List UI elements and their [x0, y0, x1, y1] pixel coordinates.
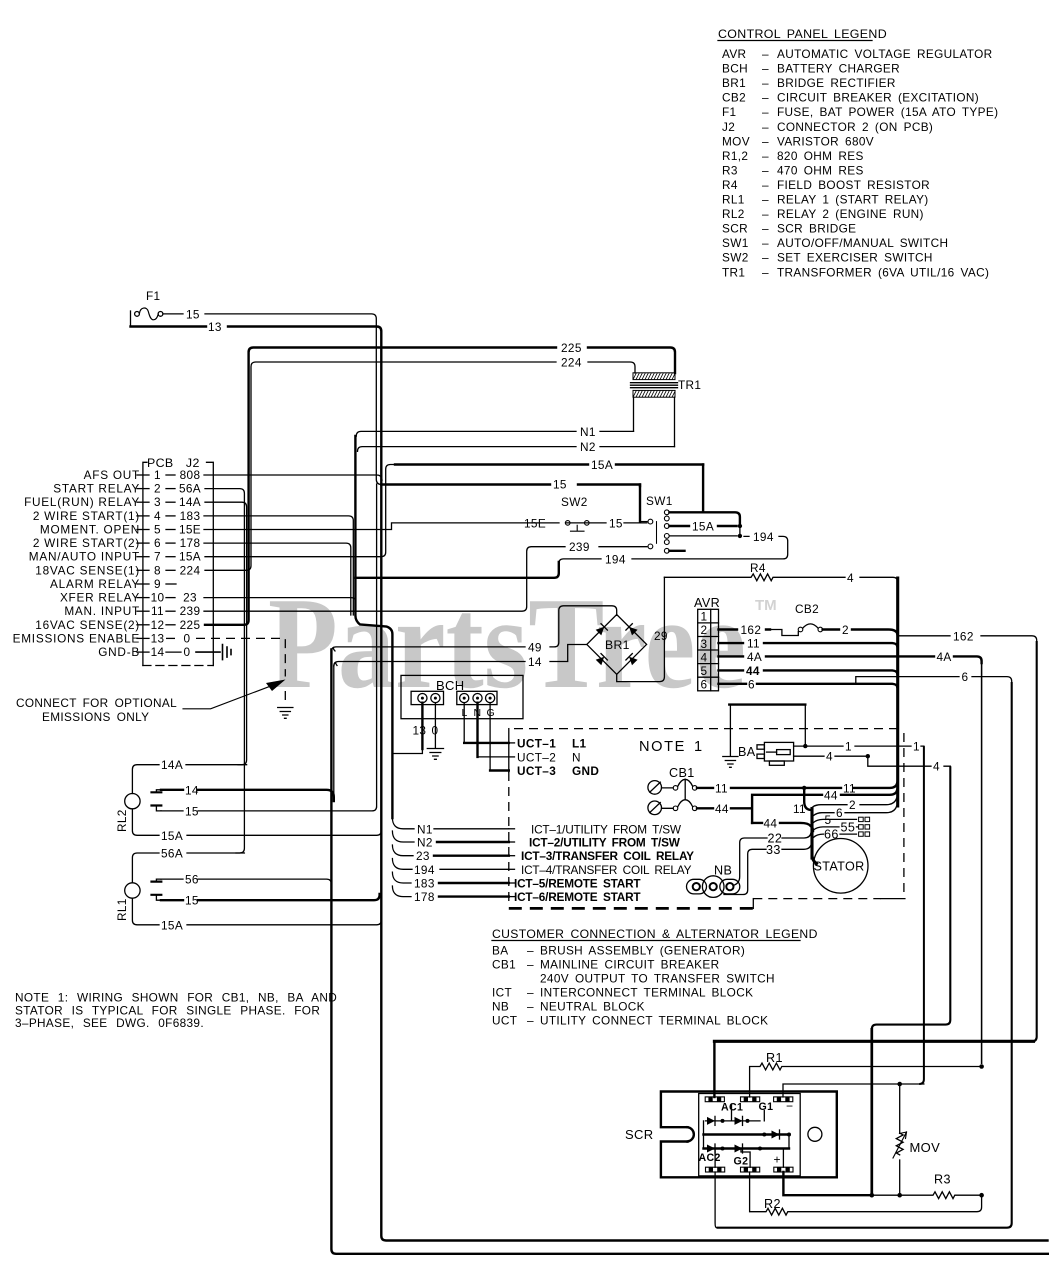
svg-text:2: 2 [701, 623, 708, 637]
svg-text:–: – [762, 193, 769, 207]
svg-text:BA: BA [492, 944, 508, 958]
svg-text:162: 162 [953, 629, 974, 643]
wire 15A (pin 7 up to 15A line) [205, 458, 703, 557]
wire 6 (AVR 6) [717, 670, 1012, 1228]
svg-text:13: 13 [151, 631, 165, 645]
wire 33 (stator to NB) [724, 842, 812, 895]
svg-text:4: 4 [847, 571, 854, 585]
customer connection and alternator legend [492, 927, 818, 1028]
svg-text:162: 162 [741, 623, 762, 637]
svg-text:CONNECT FOR OPTIONAL: CONNECT FOR OPTIONAL [16, 696, 177, 710]
svg-text:AUTO/OFF/MANUAL SWITCH: AUTO/OFF/MANUAL SWITCH [777, 236, 948, 250]
svg-text:2 WIRE START(2): 2 WIRE START(2) [33, 536, 140, 550]
svg-text:15A: 15A [591, 458, 613, 472]
resistor R3 label [934, 1173, 951, 1187]
svg-text:UCT–1: UCT–1 [517, 736, 556, 750]
svg-text:5: 5 [154, 523, 161, 537]
resistor R2 (G2 to 4A) [750, 1172, 982, 1215]
svg-text:CONTROL PANEL LEGEND: CONTROL PANEL LEGEND [718, 27, 887, 41]
svg-text:RL1: RL1 [722, 193, 745, 207]
wire AC2 (SCR bottom to rail) [715, 1172, 717, 1228]
svg-text:NOTE 1: WIRING SHOWN FOR CB1,: NOTE 1: WIRING SHOWN FOR CB1, NB, BA AND [15, 991, 337, 1005]
relay RL1 coil [115, 883, 140, 921]
svg-text:3–PHASE, SEE DWG. 0F6839.: 3–PHASE, SEE DWG. 0F6839. [15, 1016, 204, 1030]
svg-text:194: 194 [605, 552, 626, 566]
wire 55 (stator to plug) [814, 820, 870, 834]
wire 15 (RL1 contact bottom) [161, 894, 380, 908]
svg-text:CB1: CB1 [492, 958, 516, 972]
SCR inner diodes row 1 [706, 1104, 765, 1125]
svg-text:15A: 15A [179, 550, 201, 564]
svg-text:239: 239 [180, 604, 201, 618]
svg-text:–: – [762, 134, 769, 148]
svg-text:44: 44 [746, 664, 760, 678]
svg-text:18VAC SENSE(1): 18VAC SENSE(1) [35, 563, 140, 577]
svg-text:2: 2 [842, 623, 849, 637]
svg-text:BATTERY CHARGER: BATTERY CHARGER [777, 62, 900, 76]
svg-text:TM: TM [755, 597, 777, 614]
svg-text:NB: NB [714, 864, 732, 878]
watermark PartsTree TM [268, 571, 777, 716]
control panel legend title [718, 27, 887, 41]
svg-text:–: – [762, 91, 769, 105]
svg-text:N2: N2 [580, 440, 596, 454]
svg-text:R3: R3 [722, 163, 738, 177]
svg-text:–: – [527, 944, 534, 958]
varistor MOV [893, 1084, 940, 1195]
wire N2 (TR1 to ICT-2) [358, 440, 675, 849]
wire 178 (ICT-6 fan) [392, 886, 508, 904]
SCR inner module [699, 1094, 822, 1176]
svg-text:4: 4 [701, 650, 708, 664]
wire 56A (pin 2 down to RL1) [205, 489, 244, 853]
svg-text:56A: 56A [161, 847, 183, 861]
svg-text:PartsTree: PartsTree [268, 571, 746, 716]
wire 15A (RL1 coil bottom) [132, 898, 381, 932]
svg-text:4: 4 [154, 509, 161, 523]
svg-text:0: 0 [184, 631, 191, 645]
svg-text:BR1: BR1 [722, 76, 746, 90]
svg-text:194: 194 [414, 863, 435, 877]
svg-text:–: – [527, 1014, 534, 1028]
svg-text:SW2: SW2 [561, 495, 588, 509]
svg-text:15A: 15A [161, 918, 183, 932]
svg-text:15: 15 [186, 308, 200, 322]
brush assembly BA frame [729, 705, 805, 744]
svg-text:SCR: SCR [722, 222, 748, 236]
svg-text:14: 14 [528, 655, 542, 669]
svg-text:178: 178 [414, 890, 435, 904]
svg-text:CIRCUIT BREAKER (EXCITATION): CIRCUIT BREAKER (EXCITATION) [777, 91, 979, 105]
svg-text:MAN/AUTO INPUT: MAN/AUTO INPUT [29, 550, 140, 564]
SCR inner diodes row 3 [704, 1144, 790, 1167]
svg-text:ICT–1/UTILITY FROM T/SW: ICT–1/UTILITY FROM T/SW [531, 822, 682, 836]
svg-text:–: – [762, 265, 769, 279]
svg-text:F1: F1 [146, 289, 160, 303]
wire 13 (BCH) [392, 703, 426, 754]
svg-text:5: 5 [825, 813, 832, 827]
legend entries [722, 47, 998, 279]
svg-text:ICT–5/REMOTE START: ICT–5/REMOTE START [514, 877, 641, 891]
svg-text:225: 225 [180, 618, 201, 632]
svg-text:MOV: MOV [722, 134, 750, 148]
wire 183 (pin 4 to ICT-5 bundle) [204, 516, 353, 615]
wire 23 (pin 10 to ICT-3 bundle) [204, 598, 356, 615]
circuit breaker CB2 and wire 162 / 2 [719, 602, 898, 637]
resistor R4 [664, 561, 897, 585]
wire 49 (BR1 top) [331, 606, 616, 655]
svg-text:6: 6 [154, 536, 161, 550]
svg-text:3: 3 [701, 637, 708, 651]
terminal labels ICT-1..6 [509, 822, 694, 904]
svg-text:MOV: MOV [910, 1140, 941, 1155]
note: connect for optional emissions only + leader arrow [16, 680, 286, 725]
svg-text:N2: N2 [417, 836, 433, 850]
svg-text:11: 11 [793, 802, 806, 816]
svg-text:–: – [762, 62, 769, 76]
svg-text:−: − [786, 1099, 793, 1113]
svg-text:ICT: ICT [492, 986, 512, 1000]
svg-text:56: 56 [185, 873, 199, 887]
svg-text:RELAY 2 (ENGINE RUN): RELAY 2 (ENGINE RUN) [777, 207, 924, 221]
wire 15 (F1 to 15A/15 column) [163, 308, 381, 485]
wire N (BCH to UCT-2) [478, 703, 509, 757]
ground (emissions) [278, 708, 293, 719]
svg-text:49: 49 [528, 640, 542, 654]
wire 13 (F1 long vertical + bottom rail) [131, 320, 1048, 1241]
svg-text:BCH: BCH [722, 62, 748, 76]
wire 4A (AVR 4) [719, 650, 982, 1064]
svg-text:TR1: TR1 [722, 265, 745, 279]
relay RL1 contact [152, 879, 162, 900]
svg-text:G1: G1 [759, 1101, 774, 1113]
wire 56A (RL1 coil top) [132, 847, 244, 883]
svg-text:ICT–4/TRANSFER COIL RELAY: ICT–4/TRANSFER COIL RELAY [521, 863, 692, 877]
svg-text:16VAC SENSE(2): 16VAC SENSE(2) [35, 618, 140, 632]
svg-text:14: 14 [185, 783, 199, 797]
wire 22 (stator to NB) [733, 832, 811, 886]
wire 239 (pin 11 to SW1) [204, 540, 647, 611]
svg-text:7: 7 [154, 550, 161, 564]
svg-text:–: – [762, 222, 769, 236]
svg-text:15: 15 [185, 804, 199, 818]
svg-text:240V OUTPUT TO TRANSFER SWITCH: 240V OUTPUT TO TRANSFER SWITCH [540, 972, 775, 986]
svg-text:R4: R4 [750, 561, 766, 575]
svg-text:N: N [572, 750, 581, 764]
wire 14A (pin 3 down to RL2) [205, 502, 247, 765]
svg-text:SCR: SCR [625, 1127, 654, 1142]
svg-text:ALARM RELAY: ALARM RELAY [50, 577, 140, 591]
svg-text:4: 4 [826, 750, 833, 764]
svg-text:23: 23 [416, 849, 430, 863]
relay RL2 coil [115, 794, 140, 833]
svg-text:MAN. INPUT: MAN. INPUT [64, 604, 140, 618]
svg-text:BA: BA [738, 745, 756, 759]
wire 15A (RL2 coil bottom) [132, 809, 381, 843]
svg-text:NB: NB [492, 1000, 509, 1014]
svg-text:470 OHM RES: 470 OHM RES [777, 163, 864, 177]
wire 2 (stator) [813, 798, 897, 812]
fuse F1 [131, 289, 163, 327]
dashed box NOTE 1 [509, 729, 905, 909]
svg-text:BR1: BR1 [605, 638, 630, 652]
wire 183 (ICT-5 fan) [392, 872, 508, 890]
svg-text:224: 224 [180, 563, 201, 577]
wire bundle vertical (2/11/44/6 bus) [896, 578, 899, 806]
svg-text:–: – [762, 149, 769, 163]
svg-text:4A: 4A [937, 650, 952, 664]
svg-text:239: 239 [569, 540, 590, 554]
svg-text:56A: 56A [179, 482, 201, 496]
svg-text:RELAY 1 (START RELAY): RELAY 1 (START RELAY) [777, 193, 929, 207]
svg-text:3: 3 [154, 495, 161, 509]
wire 224 (pin 8 up to TR1) [205, 356, 635, 571]
neutral block NB [687, 864, 740, 898]
svg-text:15: 15 [609, 516, 623, 530]
SCR terminals [705, 1097, 793, 1172]
battery charger BCH [401, 675, 523, 719]
SCR bridge outer box [625, 1092, 837, 1178]
svg-text:15A: 15A [161, 829, 183, 843]
svg-text:2: 2 [849, 798, 856, 812]
wire 44 (AVR 5) [719, 664, 898, 678]
switch SW1 [640, 485, 742, 554]
wire 11 (CB1 to stator and AVR3) [697, 781, 897, 816]
stator [813, 839, 869, 894]
wire 56 (RL1 contact top) [161, 873, 331, 887]
svg-text:FUSE, BAT POWER (15A ATO TYPE): FUSE, BAT POWER (15A ATO TYPE) [777, 105, 998, 119]
svg-text:CB1: CB1 [669, 766, 695, 780]
transformer TR1 [631, 373, 702, 447]
svg-text:–: – [527, 1000, 534, 1014]
svg-text:UCT–2: UCT–2 [517, 750, 556, 764]
svg-text:EMISSIONS ENABLE: EMISSIONS ENABLE [13, 631, 140, 645]
svg-text:RL2: RL2 [115, 809, 129, 832]
svg-text:1: 1 [154, 468, 161, 482]
svg-text:UCT: UCT [492, 1014, 517, 1028]
svg-text:EMISSIONS ONLY: EMISSIONS ONLY [42, 710, 149, 724]
svg-text:178: 178 [180, 536, 201, 550]
relay RL2 contact [152, 790, 162, 811]
svg-text:194: 194 [753, 530, 774, 544]
wire 15E (pin 5 to SW2) [204, 516, 647, 530]
wire 5 (stator to plug) [814, 813, 870, 827]
svg-text:AFS OUT: AFS OUT [84, 468, 140, 482]
svg-text:F1: F1 [722, 105, 736, 119]
svg-text:44: 44 [715, 802, 729, 816]
svg-text:START RELAY: START RELAY [53, 482, 140, 496]
svg-text:+: + [774, 1153, 781, 1167]
svg-text:NEUTRAL BLOCK: NEUTRAL BLOCK [540, 1000, 645, 1014]
svg-text:GND-B: GND-B [98, 645, 140, 659]
svg-text:10: 10 [151, 591, 165, 605]
svg-text:15E: 15E [179, 523, 201, 537]
terminal labels UCT-1/2/3 [509, 736, 600, 778]
svg-text:14A: 14A [161, 758, 183, 772]
svg-text:–: – [762, 178, 769, 192]
svg-text:15E: 15E [524, 516, 546, 530]
ground GND-B (pin 14) [196, 645, 231, 660]
svg-text:SW1: SW1 [722, 236, 749, 250]
wire bundle (stator leads) [810, 809, 813, 859]
SCR terminal labels [699, 1099, 794, 1168]
svg-text:R1,2: R1,2 [722, 149, 748, 163]
svg-text:TR1: TR1 [678, 378, 701, 392]
svg-text:–: – [762, 236, 769, 250]
svg-text:44: 44 [824, 788, 838, 802]
wire G (BCH to UCT-3) [490, 703, 509, 771]
svg-text:12: 12 [151, 618, 165, 632]
svg-text:MOMENT. OPEN: MOMENT. OPEN [40, 523, 140, 537]
wire minus (SCR to MOV/wire1) [783, 1082, 924, 1097]
wire + rail (SCR to wire4/R3) [783, 1172, 983, 1199]
svg-text:CONNECTOR 2 (ON PCB): CONNECTOR 2 (ON PCB) [777, 120, 933, 134]
svg-text:4: 4 [933, 760, 940, 774]
svg-text:15: 15 [553, 478, 567, 492]
svg-text:VARISTOR 680V: VARISTOR 680V [777, 134, 874, 148]
svg-text:–: – [527, 986, 534, 1000]
svg-text:–: – [762, 47, 769, 61]
wire 162 (right drop) [899, 629, 1037, 1041]
svg-text:1: 1 [701, 610, 708, 624]
connector J2 pin rows [13, 468, 201, 659]
wire 225 (pin 12 up to TR1) [205, 341, 675, 625]
svg-text:15: 15 [185, 894, 199, 908]
wire 808 (pin 1 to SW bus 15) [204, 475, 640, 492]
svg-text:SET EXERCISER SWITCH: SET EXERCISER SWITCH [777, 251, 933, 265]
note 1 text [15, 991, 337, 1031]
brush assembly BA [738, 742, 794, 765]
svg-text:R1: R1 [766, 1051, 783, 1065]
wire 11 (AVR 3) [719, 637, 898, 651]
svg-text:2: 2 [154, 482, 161, 496]
connector AVR [694, 596, 720, 692]
svg-text:L1: L1 [572, 736, 587, 750]
svg-text:GND: GND [572, 764, 599, 778]
svg-text:ICT–3/TRANSFER COIL RELAY: ICT–3/TRANSFER COIL RELAY [521, 849, 694, 863]
bottom rail (lower) [331, 650, 1048, 1254]
bridge rectifier BR1 body [587, 615, 647, 675]
svg-text:11: 11 [747, 637, 760, 651]
svg-text:AUTOMATIC VOLTAGE REGULATOR: AUTOMATIC VOLTAGE REGULATOR [777, 47, 992, 61]
wire 194 (SW1 to ICT-4) [355, 530, 787, 877]
svg-text:9: 9 [154, 577, 161, 591]
svg-text:MAINLINE CIRCUIT BREAKER: MAINLINE CIRCUIT BREAKER [540, 958, 719, 972]
wire 178 (pin 6 to ICT-6 bundle) [204, 543, 351, 615]
svg-text:ICT–6/REMOTE START: ICT–6/REMOTE START [514, 890, 641, 904]
svg-text:15A: 15A [692, 520, 714, 534]
svg-text:–: – [762, 207, 769, 221]
switch SW2 [561, 495, 589, 531]
wire L1 (BCH to UCT-1) [464, 703, 509, 743]
svg-text:13: 13 [208, 320, 222, 334]
svg-text:CB2: CB2 [795, 602, 819, 616]
svg-text:14A: 14A [179, 495, 201, 509]
svg-text:–: – [762, 76, 769, 90]
svg-text:820 OHM RES: 820 OHM RES [777, 149, 864, 163]
resistor R1 (G1 to 4A) [750, 1051, 984, 1097]
svg-text:–: – [762, 105, 769, 119]
svg-text:STATOR: STATOR [814, 860, 865, 874]
svg-text:N1: N1 [580, 425, 596, 439]
svg-text:CB2: CB2 [722, 91, 746, 105]
svg-text:23: 23 [183, 591, 197, 605]
svg-text:808: 808 [180, 468, 201, 482]
svg-text:R2: R2 [764, 1197, 781, 1211]
wire AC1 rail (heavy, wire 1/162 to SCR) [714, 1041, 1033, 1097]
svg-text:6: 6 [962, 670, 969, 684]
svg-text:ICT–2/UTILITY FROM T/SW: ICT–2/UTILITY FROM T/SW [529, 836, 681, 850]
svg-text:55: 55 [841, 820, 856, 834]
connector J2 (PCB) box [143, 456, 213, 666]
svg-text:2 WIRE START(1): 2 WIRE START(1) [33, 509, 140, 523]
svg-text:UCT–3: UCT–3 [517, 764, 556, 778]
svg-text:AVR: AVR [722, 47, 746, 61]
svg-text:UTILITY CONNECT TERMINAL BLOCK: UTILITY CONNECT TERMINAL BLOCK [540, 1014, 768, 1028]
wire 0 emissions enable (pin 13 dashed to ground) [196, 638, 285, 706]
wire 29 (BR1 bottom to R4 line) [617, 577, 668, 681]
wire 66 (stator to plug) [814, 828, 870, 842]
svg-text:FIELD BOOST RESISTOR: FIELD BOOST RESISTOR [777, 178, 930, 192]
svg-text:N1: N1 [417, 822, 433, 836]
svg-text:6: 6 [836, 806, 843, 820]
svg-text:4A: 4A [747, 650, 762, 664]
svg-text:5: 5 [701, 664, 708, 678]
svg-text:FUEL(RUN) RELAY: FUEL(RUN) RELAY [24, 495, 140, 509]
wire 14A (RL2 coil top) [132, 758, 246, 793]
svg-text:SW1: SW1 [646, 494, 673, 508]
svg-text:11: 11 [843, 781, 856, 795]
svg-text:–: – [527, 958, 534, 972]
svg-text:6: 6 [701, 678, 708, 692]
circuit breaker CB1 [648, 766, 697, 815]
wire 1 (BA to SCR AC1 rail) [794, 740, 924, 1084]
svg-text:AVR: AVR [694, 596, 720, 610]
svg-text:AC2: AC2 [699, 1152, 721, 1164]
svg-text:R4: R4 [722, 178, 738, 192]
svg-text:14: 14 [151, 645, 165, 659]
svg-text:11: 11 [151, 604, 164, 618]
svg-text:SCR BRIDGE: SCR BRIDGE [777, 222, 856, 236]
svg-text:TRANSFORMER (6VA UTIL/16 VAC): TRANSFORMER (6VA UTIL/16 VAC) [777, 265, 989, 279]
svg-text:R3: R3 [934, 1173, 951, 1187]
wire 14 (RL2 contact top) [161, 666, 334, 801]
svg-text:0: 0 [432, 724, 439, 738]
wire 15 (RL2 contact bottom) [161, 484, 377, 818]
svg-text:29: 29 [654, 629, 668, 643]
ground (BA frame) [723, 705, 738, 768]
wire 14 (BR1 left) [334, 645, 587, 670]
svg-text:11: 11 [715, 781, 728, 795]
svg-text:RL1: RL1 [115, 898, 129, 921]
svg-text:NOTE 1: NOTE 1 [639, 739, 704, 755]
svg-text:0: 0 [184, 645, 191, 659]
SCR inner diode row 2 [704, 1121, 792, 1149]
svg-text:13: 13 [413, 724, 427, 738]
wire 15A (to SW1 top) [702, 465, 704, 513]
wire bundle N1 N2 23 194 183 178 (jog) [355, 436, 392, 818]
svg-text:J2: J2 [722, 120, 735, 134]
svg-text:1: 1 [913, 740, 920, 754]
svg-text:–: – [762, 120, 769, 134]
wire 4 (BA to + rail) [794, 750, 951, 1194]
svg-text:G: G [487, 707, 496, 719]
svg-text:225: 225 [561, 341, 582, 355]
svg-text:CUSTOMER CONNECTION & ALTERNAT: CUSTOMER CONNECTION & ALTERNATOR LEGEND [492, 927, 818, 941]
svg-text:44: 44 [764, 816, 778, 830]
wire 6 (stator) [814, 806, 897, 820]
svg-text:183: 183 [180, 509, 201, 523]
